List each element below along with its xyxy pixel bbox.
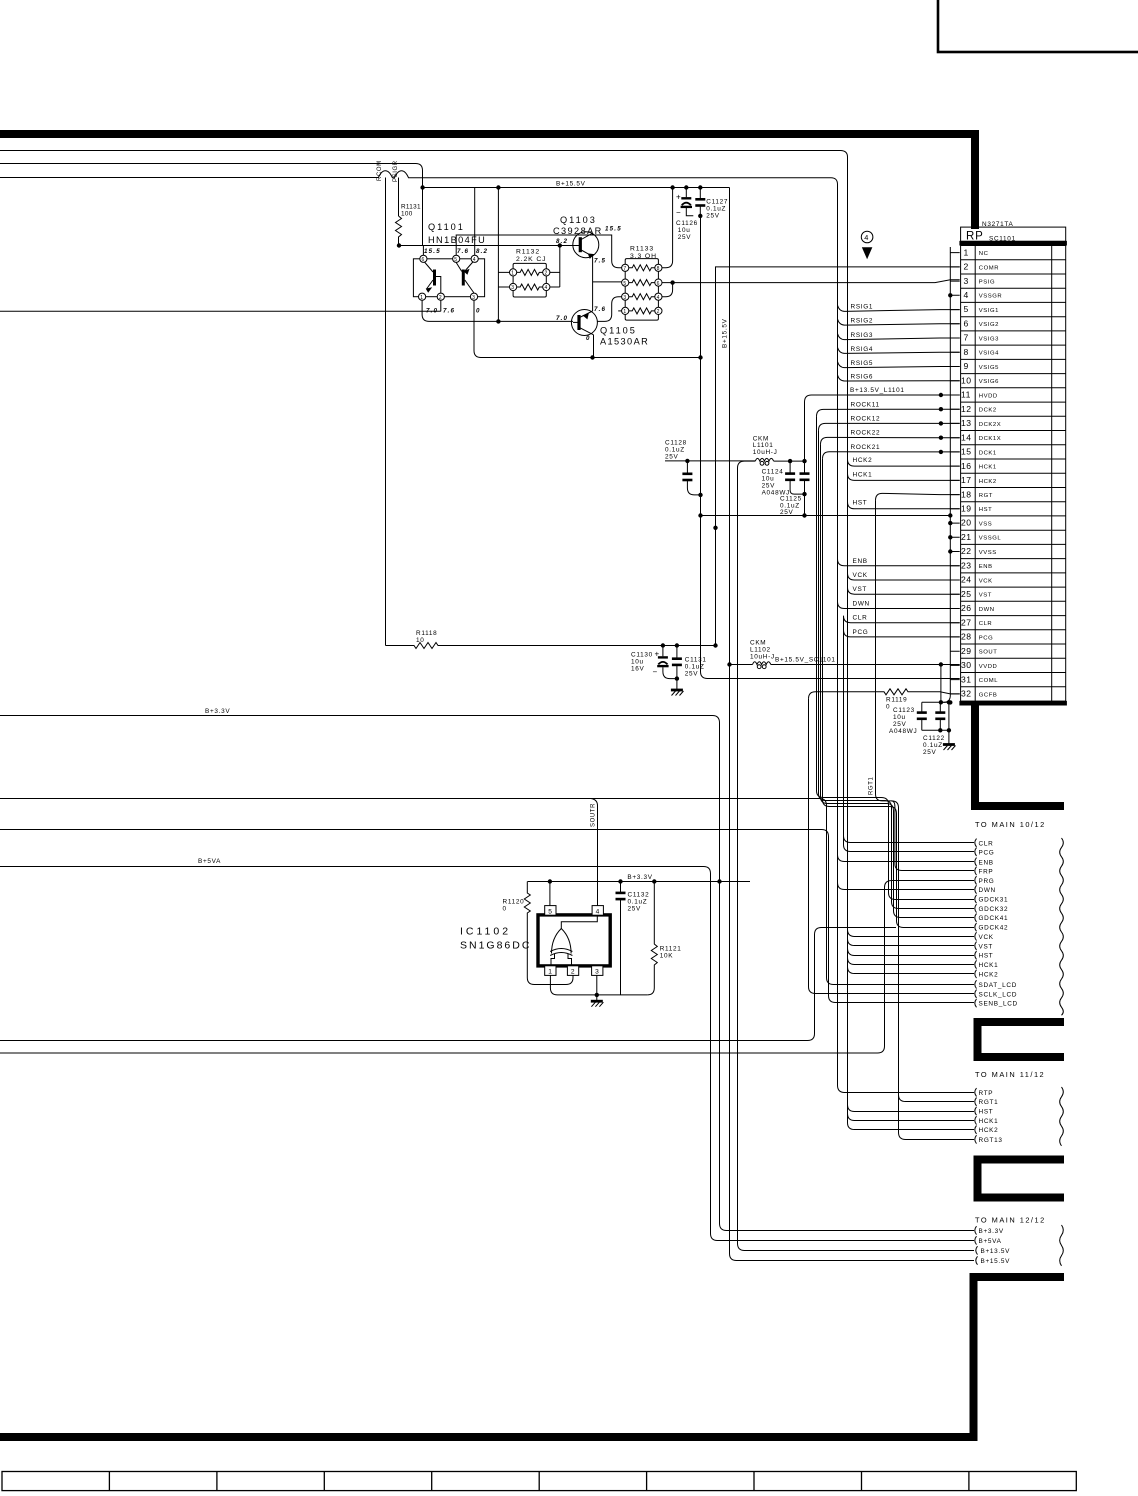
wire RSIG5 to pin9 [838, 362, 960, 368]
wire ROCK21 jog to GDCK42 [823, 459, 975, 928]
sheet reference marker 4 [861, 231, 873, 258]
node PSIGR: vertical from hop down to R1131 [398, 178, 400, 217]
svg-text:PSIGR: PSIGR [393, 160, 399, 182]
svg-text:2.2K CJ: 2.2K CJ [516, 256, 546, 263]
svg-text:10uH-J: 10uH-J [753, 449, 778, 456]
capacitor C1125 0.1uZ 25V [780, 461, 810, 516]
svg-text:6: 6 [964, 319, 969, 329]
svg-text:R1131: R1131 [401, 204, 421, 211]
svg-text:2: 2 [571, 969, 575, 976]
svg-text:19: 19 [961, 504, 972, 514]
svg-text:B+3.3V: B+3.3V [205, 708, 230, 715]
page top border [0, 130, 979, 138]
wire: Q1101 pin4 up to rail [474, 188, 476, 256]
svg-text:B+15.5V: B+15.5V [722, 318, 729, 348]
svg-text:DCK2: DCK2 [979, 408, 997, 414]
svg-text:0: 0 [886, 704, 890, 711]
svg-text:ROCK22: ROCK22 [851, 429, 881, 436]
svg-text:HCK1: HCK1 [979, 465, 997, 471]
svg-text:+: + [676, 193, 681, 202]
svg-text:7.6: 7.6 [457, 248, 469, 255]
svg-text:23: 23 [961, 560, 972, 570]
svg-text:20: 20 [961, 518, 972, 528]
svg-text:7.6: 7.6 [443, 308, 455, 315]
svg-text:VST: VST [853, 586, 868, 593]
svg-text:4: 4 [596, 908, 600, 915]
svg-text:C1127: C1127 [706, 199, 728, 206]
wire HST to pin19 [848, 502, 960, 509]
svg-text:CLR: CLR [979, 840, 994, 847]
svg-text:HCK2: HCK2 [979, 971, 999, 978]
wire ROCK11 jog to GDCK31 [817, 416, 975, 899]
svg-text:7.6: 7.6 [594, 306, 606, 313]
svg-text:28: 28 [961, 632, 972, 642]
wire: IC1102 pin1 down to gnd bus [550, 975, 647, 995]
svg-text:PCG: PCG [979, 635, 993, 641]
svg-text:2: 2 [545, 271, 548, 277]
svg-text:DWN: DWN [979, 607, 995, 613]
svg-text:HCK2: HCK2 [979, 1127, 999, 1134]
svg-text:TO MAIN 12/12: TO MAIN 12/12 [975, 1216, 1046, 1225]
wire: L1101 right node up to pin11 wire and caps [804, 402, 806, 461]
connector pin stubs [950, 253, 959, 694]
svg-text:VSIG3: VSIG3 [979, 336, 999, 342]
resistor network R1132 2.2K [509, 249, 549, 298]
svg-text:GDCK31: GDCK31 [979, 897, 1009, 904]
wire bus to SENB_LCD [0, 830, 974, 1003]
svg-text:3: 3 [623, 295, 626, 301]
resistor R1119 0 (GCFB wire to pin32) [809, 689, 960, 699]
svg-text:25V: 25V [685, 671, 699, 678]
wire GCFB bus down to SCLK_LCD [809, 699, 975, 994]
svg-text:R1133: R1133 [630, 246, 654, 253]
resistor R1131 100 [396, 216, 402, 246]
svg-text:RSIG5: RSIG5 [851, 360, 874, 367]
wire RSIG6 to pin10 [838, 375, 960, 381]
svg-text:25V: 25V [678, 234, 692, 241]
svg-text:0: 0 [586, 335, 591, 342]
svg-text:A048WJ: A048WJ [889, 728, 917, 735]
svg-text:SENB_LCD: SENB_LCD [979, 1001, 1018, 1008]
svg-text:15.5: 15.5 [605, 226, 622, 233]
wire: IC1102 pin3 to ground [596, 975, 598, 1000]
svg-text:VST: VST [979, 943, 994, 950]
wire: Q1101 pin5 up and to Q1103 collector line [456, 235, 622, 268]
svg-text:HST: HST [979, 507, 992, 513]
svg-text:GCFB: GCFB [979, 692, 998, 698]
svg-text:2: 2 [439, 295, 442, 301]
svg-text:25V: 25V [706, 213, 720, 220]
svg-text:R1118: R1118 [416, 630, 437, 637]
wire RSIG3 to pin7 [838, 334, 960, 340]
svg-text:25: 25 [961, 589, 972, 599]
inductor L1102 CKM 10uH-J [727, 640, 959, 669]
wire PCG to pin28 [844, 630, 960, 637]
svg-text:VSSGL: VSSGL [979, 536, 1002, 542]
svg-text:2: 2 [657, 309, 660, 315]
svg-text:100: 100 [401, 211, 413, 218]
svg-text:13: 13 [961, 418, 972, 428]
wire DWN to pin26 [838, 602, 960, 609]
svg-text:R1121: R1121 [660, 946, 682, 953]
svg-text:HVDD: HVDD [979, 393, 998, 399]
svg-text:10K: 10K [660, 953, 674, 960]
svg-text:C1123: C1123 [893, 707, 915, 714]
wire: Q1101 pin6 up to base line [422, 246, 424, 256]
svg-text:7: 7 [964, 333, 969, 343]
svg-text:HST: HST [979, 953, 994, 960]
svg-text:3: 3 [472, 295, 475, 301]
svg-text:RSIG6: RSIG6 [851, 373, 874, 380]
cable squiggle TO MAIN 11/12 [1060, 1087, 1064, 1146]
svg-text:0.1uZ: 0.1uZ [923, 742, 943, 749]
svg-text:14: 14 [961, 432, 972, 442]
svg-text:10u: 10u [678, 227, 691, 234]
svg-text:RSIG3: RSIG3 [851, 332, 874, 339]
svg-text:VSIG2: VSIG2 [979, 322, 999, 328]
capacitor C1122 0.1uZ 25V [923, 702, 945, 756]
svg-text:3: 3 [595, 969, 599, 976]
wire: R1132 pin2,4 stubs to Q1103 base vertical [550, 246, 560, 288]
title block table at bottom [2, 1472, 1076, 1491]
svg-text:26: 26 [961, 603, 972, 613]
svg-text:1: 1 [420, 295, 423, 301]
resistor network R1133 3.3 OH [622, 246, 662, 321]
svg-text:25V: 25V [762, 483, 776, 490]
wire: third top line (RCOM/PSIGR bus) to vertical at x=837.5 [0, 171, 838, 306]
svg-text:9: 9 [964, 361, 969, 371]
border notch bracket between TO MAIN 10/12 and 11/12 [977, 1018, 1064, 1061]
svg-text:COML: COML [979, 678, 998, 684]
ground under IC1102 pin3 [591, 1000, 603, 1003]
svg-text:C1125: C1125 [780, 496, 802, 503]
svg-text:7.5: 7.5 [594, 258, 606, 265]
svg-text:Q1105: Q1105 [600, 326, 637, 336]
transistor Q1103 C3928AR [553, 215, 622, 265]
svg-text:B+15.5V_SC1101: B+15.5V_SC1101 [775, 657, 836, 664]
svg-text:17: 17 [961, 475, 972, 485]
capacitor C1123 10u 25V A048WJ [889, 700, 951, 735]
svg-text:VSS: VSS [979, 522, 992, 528]
svg-text:B+15.5V: B+15.5V [556, 181, 586, 188]
svg-text:HST: HST [979, 1109, 994, 1116]
wire: Q1101 pin3 down to COML line [474, 300, 701, 357]
svg-text:4: 4 [964, 290, 969, 300]
page right border upper segment [971, 130, 979, 229]
pin rows [961, 246, 1066, 702]
svg-text:7.0: 7.0 [556, 315, 568, 322]
svg-text:10u: 10u [893, 714, 906, 721]
svg-text:10uH-J: 10uH-J [750, 654, 775, 661]
svg-text:18: 18 [961, 489, 972, 499]
wire FRP from RGT bus [892, 801, 975, 871]
wire RSIG4 to pin8 [838, 347, 960, 353]
wire VSS bus to pins 20-22 [701, 515, 951, 517]
svg-text:C1131: C1131 [685, 657, 707, 664]
svg-text:RGT: RGT [979, 493, 993, 499]
svg-text:VST: VST [979, 593, 992, 599]
wire RGT to pin18 [876, 493, 960, 500]
resistor R1120 0 [524, 882, 573, 985]
svg-text:B+5VA: B+5VA [198, 858, 221, 865]
resistor R1121 10K [647, 882, 657, 995]
wire VCK to pin24 [848, 573, 960, 580]
wire ROCK12 jog to GDCK32 [819, 430, 975, 908]
svg-text:R1120: R1120 [503, 899, 525, 906]
svg-text:22: 22 [961, 546, 972, 556]
svg-text:GDCK41: GDCK41 [979, 915, 1009, 922]
wire: R1132 pin1,3 stubs to B+ branch [498, 272, 509, 287]
svg-text:24: 24 [961, 575, 972, 585]
svg-text:RTP: RTP [979, 1090, 994, 1097]
wire: R1131 bottom to Q1103 base [399, 245, 560, 247]
svg-text:8: 8 [657, 266, 660, 272]
wire ROCK12 to pin13 [819, 423, 960, 430]
connector pin attach line (left bracket) [943, 247, 950, 702]
svg-text:CLR: CLR [853, 615, 868, 622]
svg-text:30: 30 [961, 660, 972, 670]
svg-text:RGT1: RGT1 [869, 777, 875, 795]
svg-text:B+13.5V_L1101: B+13.5V_L1101 [850, 387, 905, 394]
svg-text:25V: 25V [665, 454, 679, 461]
wire VST to pin25 [848, 587, 960, 594]
svg-text:4: 4 [657, 295, 660, 301]
svg-text:NC: NC [979, 251, 989, 257]
wire CLR to pin27 [844, 616, 960, 623]
cable squiggle TO MAIN 12/12 [1060, 1225, 1064, 1266]
svg-text:4: 4 [545, 285, 548, 291]
svg-text:5: 5 [964, 304, 969, 314]
svg-text:1: 1 [623, 309, 626, 315]
power rail B+15.5V top [423, 187, 730, 189]
capacitor C1131 0.1uZ 25V [672, 643, 707, 689]
svg-text:VCK: VCK [853, 572, 868, 579]
wire COML: caps bottom down to connector pin31 [701, 216, 960, 679]
page right border: segment below connector [971, 703, 1064, 810]
wire HCK1 to pin17 [848, 474, 960, 481]
svg-text:29: 29 [961, 646, 972, 656]
svg-text:ENB: ENB [979, 564, 993, 570]
svg-text:C1122: C1122 [923, 735, 945, 742]
svg-text:SOUT: SOUT [979, 650, 998, 656]
IC IC1102 SN1G86DC [460, 906, 610, 976]
capacitor C1127 0.1uZ 25V [695, 185, 728, 219]
node RCOM: vertical from hop down to R1118 line [385, 178, 387, 646]
border bracket below TO MAIN 12/12 joining bottom border [0, 1273, 1064, 1441]
svg-text:RSIG4: RSIG4 [851, 346, 874, 353]
svg-text:ENB: ENB [853, 558, 868, 565]
wire COMR: connector pin2 down to R1118 line [716, 267, 960, 646]
vertical bus HST chain from top line1 [848, 157, 975, 1112]
svg-text:1: 1 [548, 969, 552, 976]
svg-text:B+13.5V: B+13.5V [981, 1248, 1011, 1255]
transistor Q1101 HN1B04FU (dual digital transistor) [413, 222, 488, 315]
svg-text:25V: 25V [923, 749, 937, 756]
svg-text:5: 5 [623, 281, 626, 287]
svg-text:6: 6 [657, 281, 660, 287]
svg-text:7: 7 [623, 266, 626, 272]
wire: Q1101 pin1 down to Q1105 base line [422, 300, 573, 321]
empty reference box at top-right corner [938, 0, 1138, 52]
capacitor C1132 0.1uZ 25V [616, 882, 650, 995]
wire ROCK22 jog to GDCK41 [821, 444, 975, 917]
svg-text:21: 21 [961, 532, 972, 542]
svg-text:HCK2: HCK2 [979, 479, 997, 485]
svg-text:VCK: VCK [979, 578, 993, 584]
wire B+13.5V from VSS? bus down to TO MAIN 12/12 [738, 516, 975, 1251]
svg-text:RGT1: RGT1 [979, 1099, 999, 1106]
wire PCG chain [844, 630, 975, 852]
svg-text:SN1G86DC: SN1G86DC [460, 940, 531, 952]
pin arcs TO MAIN 12/12 [975, 1226, 978, 1265]
svg-text:11: 11 [961, 390, 971, 400]
svg-text:10u: 10u [762, 476, 775, 483]
wire B+3.3V long line from left edge, down to TO MAIN 12/12 [0, 716, 974, 1231]
svg-text:0: 0 [476, 308, 481, 315]
svg-text:HCK2: HCK2 [853, 457, 873, 464]
wire: Q1101 pin2 down to left line [0, 300, 441, 311]
svg-text:16: 16 [961, 461, 972, 471]
svg-text:2: 2 [964, 262, 969, 272]
wire HST peel to TO MAIN 10/12 [848, 948, 975, 956]
svg-text:6: 6 [422, 257, 425, 263]
vertical bus A (RTP / RSIG feed) from top line3 [838, 185, 975, 1093]
svg-text:C1128: C1128 [665, 440, 687, 447]
wire: vertical B+ branch to Q1105 base line [497, 188, 499, 322]
wire B+15.5V from top rail down to TO MAIN 12/12 [730, 188, 975, 1261]
svg-text:B+3.3V: B+3.3V [979, 1228, 1004, 1235]
svg-text:25V: 25V [893, 721, 907, 728]
svg-text:R1119: R1119 [886, 697, 907, 704]
wire ROCK21 to pin15 [823, 452, 960, 459]
svg-text:15: 15 [961, 447, 972, 457]
wire ROCK22 to pin14 [821, 437, 960, 444]
svg-text:A1530AR: A1530AR [600, 337, 649, 347]
capacitor C1130 10u 16V (electrolytic) [631, 643, 677, 678]
svg-text:TO MAIN 10/12: TO MAIN 10/12 [975, 820, 1046, 829]
svg-text:ROCK21: ROCK21 [851, 444, 881, 451]
svg-text:0.1uZ: 0.1uZ [706, 206, 726, 213]
connector RP SC1101 (N3271TA) [959, 221, 1067, 703]
pin arcs TO MAIN 11/12 [975, 1088, 977, 1144]
inductor L1101 CKM 10uH-J [738, 436, 805, 516]
svg-text:GDCK42: GDCK42 [979, 925, 1009, 932]
svg-text:GDCK32: GDCK32 [979, 906, 1009, 913]
wire ENB to pin23 [838, 559, 960, 566]
wire HCK1 chain [848, 459, 975, 1120]
svg-text:31: 31 [961, 674, 972, 684]
pin arcs TO MAIN 10/12 [975, 839, 977, 1008]
svg-text:HCK1: HCK1 [979, 962, 999, 969]
svg-text:10: 10 [416, 637, 425, 644]
svg-text:CKM: CKM [750, 640, 766, 647]
svg-text:RSIG1: RSIG1 [851, 304, 874, 311]
svg-text:RCOM: RCOM [377, 160, 383, 181]
svg-text:0.1uZ: 0.1uZ [628, 899, 648, 906]
wire: pin30 node down to C1123 bus [940, 665, 942, 703]
wire B+13.5V_L1101 to pin11 [805, 395, 960, 402]
wire bottom long bus to GDCK42 corner [0, 928, 896, 1041]
svg-text:L1102: L1102 [750, 647, 771, 654]
svg-text:R1132: R1132 [516, 249, 540, 256]
svg-text:VSIG6: VSIG6 [979, 379, 999, 385]
svg-text:RGT13: RGT13 [979, 1137, 1003, 1144]
wire PRG from bottom long bus [0, 881, 974, 1054]
svg-text:0.1uZ: 0.1uZ [685, 664, 705, 671]
wire CLR chain [844, 616, 975, 843]
wire: long top line to HST bus [0, 151, 848, 465]
svg-text:DCK2X: DCK2X [979, 422, 1001, 428]
ground under C1122 [943, 743, 955, 746]
svg-text:HST: HST [853, 500, 868, 507]
svg-text:VVSS: VVSS [979, 550, 997, 556]
wire B+5VA long line from left edge, down to TO MAIN 12/12 [0, 867, 974, 1241]
svg-text:5: 5 [454, 257, 457, 263]
wire ROCK11 to pin12 [817, 409, 960, 416]
svg-text:DWN: DWN [853, 601, 870, 608]
svg-text:FRP: FRP [979, 868, 994, 875]
cable squiggle TO MAIN 10/12 [1060, 838, 1064, 1015]
svg-text:ROCK12: ROCK12 [851, 415, 881, 422]
svg-text:C1130: C1130 [631, 652, 653, 659]
svg-text:Q1103: Q1103 [560, 215, 597, 225]
svg-text:TO MAIN 11/12: TO MAIN 11/12 [975, 1070, 1045, 1079]
svg-text:VVDD: VVDD [979, 664, 998, 670]
svg-text:0: 0 [503, 906, 507, 913]
capacitor C1126 10u 25V (electrolytic) [676, 185, 698, 241]
svg-text:PCG: PCG [979, 850, 995, 857]
wire DWN chain [838, 602, 975, 890]
svg-text:5: 5 [548, 908, 552, 915]
wire: second top line to B+15.5V rail start [0, 164, 423, 246]
svg-text:10u: 10u [631, 659, 644, 666]
svg-text:1: 1 [511, 271, 514, 277]
svg-text:CLR: CLR [979, 621, 992, 627]
wire: Q1105 collector down to COML line [593, 335, 595, 358]
svg-text:VSIG5: VSIG5 [979, 365, 999, 371]
svg-text:4: 4 [473, 257, 476, 263]
svg-text:16V: 16V [631, 666, 645, 673]
wire: C1122/C1123 bottom bus to ground [922, 702, 949, 744]
ground under C1131 [671, 689, 683, 692]
svg-text:PCG: PCG [853, 629, 869, 636]
svg-text:25V: 25V [780, 509, 794, 516]
svg-text:RSIG2: RSIG2 [851, 318, 874, 325]
wire: R1133 pin6 to connector pin3, branch to pin4 [662, 280, 960, 283]
svg-text:SDAT_LCD: SDAT_LCD [979, 982, 1018, 989]
wire B+3.3V local rail at IC1102 [528, 881, 751, 883]
svg-text:C1124: C1124 [762, 469, 784, 476]
svg-text:8: 8 [964, 347, 969, 357]
wire: Q1103 collector up to line [592, 233, 594, 235]
wire VCK chain [848, 573, 975, 936]
svg-text:−: − [653, 668, 658, 677]
svg-text:ENB: ENB [979, 859, 994, 866]
capacitor C1128 0.1uZ 25V [665, 440, 755, 495]
svg-text:ROCK11: ROCK11 [851, 401, 880, 408]
wire: Q1103 emitter down, to R1133 pin5 and Q1105 emitter [593, 256, 622, 311]
svg-text:PRG: PRG [979, 878, 995, 885]
svg-text:DCK1X: DCK1X [979, 436, 1001, 442]
svg-text:B+3.3V: B+3.3V [627, 874, 652, 881]
wire: R1133 pin1 stub [618, 310, 621, 312]
border notch bracket between TO MAIN 11/12 and 12/12 [977, 1156, 1064, 1202]
capacitor C1124 10u 25V A048WJ [762, 461, 805, 496]
svg-text:IC1102: IC1102 [460, 926, 511, 938]
XOR gate pointing up [552, 929, 572, 954]
svg-text:B+5VA: B+5VA [979, 1238, 1002, 1245]
wire VST chain [848, 587, 975, 945]
